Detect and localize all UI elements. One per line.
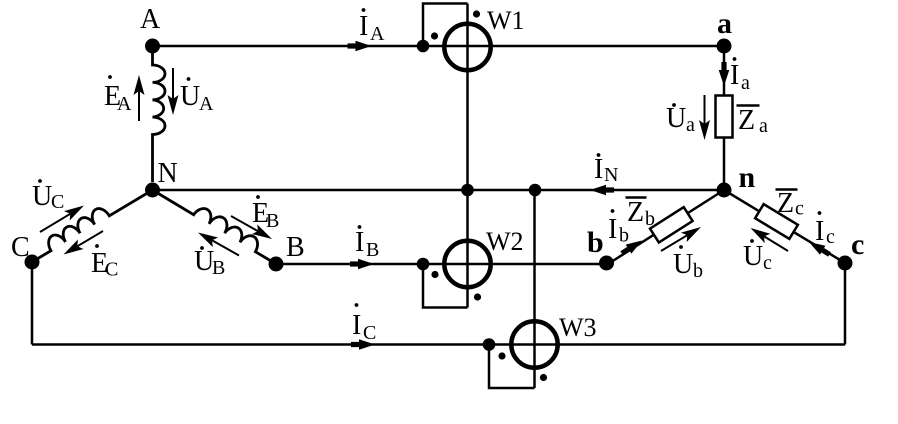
svg-text:U: U — [32, 181, 52, 212]
svg-text:Z: Z — [738, 105, 755, 136]
arrow Ub (to n) — [661, 227, 701, 251]
wattmeter W3 voltage wire — [533, 190, 536, 388]
svg-text:B: B — [286, 232, 305, 263]
label node a — [717, 7, 732, 40]
svg-text:B: B — [212, 257, 225, 279]
svg-text:U: U — [743, 241, 763, 272]
node C — [25, 255, 40, 270]
svg-text:I: I — [608, 214, 617, 245]
impedance Zb — [650, 207, 693, 242]
svg-text:U: U — [666, 103, 686, 134]
svg-text:n: n — [739, 161, 756, 194]
svg-text:I: I — [355, 227, 364, 258]
wattmeter W2 voltage wire — [466, 190, 469, 308]
svg-text:I: I — [359, 11, 368, 42]
svg-text:a: a — [717, 7, 732, 40]
label current IN — [594, 153, 618, 186]
current arrow IC — [351, 339, 375, 350]
arrow EB (to B) — [231, 216, 272, 239]
svg-text:N: N — [158, 158, 178, 189]
svg-text:c: c — [851, 228, 864, 261]
arrow Ua (down) — [699, 95, 710, 140]
wattmeter W1 voltage wire — [466, 4, 469, 191]
arrow UC (to N) — [40, 206, 84, 233]
svg-text:W2: W2 — [486, 227, 524, 256]
node b — [599, 256, 614, 271]
svg-text:A: A — [370, 23, 385, 45]
label node N — [158, 158, 178, 189]
svg-text:C: C — [11, 232, 30, 263]
label current IB — [355, 225, 379, 261]
svg-text:I: I — [730, 60, 739, 91]
label W3 — [559, 313, 597, 342]
wire bottom line C (via W3) — [32, 343, 845, 346]
label impedance Zc — [776, 188, 805, 220]
label voltage Ub — [673, 245, 703, 282]
label voltage Uc — [743, 239, 772, 274]
svg-text:c: c — [763, 252, 772, 274]
impedance Za — [716, 96, 733, 138]
impedance Zc — [755, 204, 798, 239]
junction W3 voltage on neutral — [529, 184, 542, 197]
svg-text:W3: W3 — [559, 313, 597, 342]
svg-text:A: A — [199, 93, 214, 115]
coil EA (phase A winding) — [153, 53, 166, 182]
arrow UA (down) — [168, 68, 179, 115]
current arrow IB — [350, 259, 374, 270]
label voltage Ua — [666, 103, 695, 136]
label current Ib — [608, 209, 629, 246]
coil EC (phase C winding) — [32, 190, 153, 262]
svg-text:A: A — [140, 4, 161, 35]
wattmeter W2 — [444, 241, 490, 287]
svg-text:U: U — [180, 81, 200, 112]
wattmeter W3 potential bracket — [489, 345, 535, 389]
current arrow Ic — [809, 242, 831, 257]
W1 polarity dot current — [431, 32, 438, 39]
svg-text:U: U — [673, 249, 693, 280]
label W2 — [486, 227, 524, 256]
label node b — [587, 226, 604, 259]
svg-text:c: c — [826, 226, 835, 248]
wire a to n (load phase a) — [723, 46, 726, 190]
node A — [145, 39, 160, 54]
label node B — [286, 232, 305, 263]
coil EB (phase B winding) — [153, 190, 277, 264]
svg-text:W1: W1 — [487, 6, 525, 35]
label node C — [11, 232, 30, 263]
wire line B (B to b) — [276, 263, 608, 266]
W2 polarity dot current — [431, 271, 438, 278]
wire neutral line (N to n) — [153, 189, 725, 192]
wire line A (A to a) — [153, 45, 725, 48]
label W1 — [487, 6, 525, 35]
current arrow IA — [348, 41, 372, 52]
svg-text:b: b — [645, 208, 655, 230]
label voltage UB — [194, 246, 225, 279]
svg-text:C: C — [51, 191, 64, 213]
arrow EC (to C) — [64, 231, 104, 255]
label node c — [851, 228, 864, 261]
wattmeter W1 potential bracket — [423, 4, 468, 47]
label current IC — [352, 303, 376, 344]
svg-text:a: a — [686, 114, 695, 136]
current arrow IN (leftward) — [590, 185, 614, 196]
svg-text:c: c — [795, 198, 804, 220]
label voltage UC — [32, 179, 64, 213]
junction W1 tap on line A — [417, 40, 430, 53]
wire C terminal down — [31, 262, 34, 345]
current arrow Ia (downward) — [719, 62, 730, 86]
label node A — [140, 4, 161, 35]
svg-text:Z: Z — [777, 188, 794, 219]
svg-text:I: I — [594, 154, 603, 185]
label impedance Zb — [626, 197, 656, 230]
svg-text:C: C — [105, 259, 118, 281]
svg-text:B: B — [266, 210, 279, 232]
label emf EA — [104, 75, 132, 115]
label current Ic — [815, 211, 835, 248]
wattmeter W2 potential bracket — [423, 264, 468, 308]
wire c to n (load phase c) — [724, 190, 845, 263]
svg-text:A: A — [117, 93, 132, 115]
label impedance Za — [737, 105, 769, 137]
label current Ia — [730, 57, 750, 94]
node n — [717, 183, 732, 198]
label node n — [739, 161, 756, 194]
arrow Uc (to n) — [751, 228, 789, 251]
svg-text:N: N — [604, 164, 618, 186]
W1 polarity dot voltage — [473, 10, 480, 17]
label voltage UA — [180, 77, 214, 115]
W2 polarity dot voltage — [474, 293, 481, 300]
wattmeter W3 — [511, 321, 557, 367]
arrow UB (to N) — [198, 233, 239, 256]
svg-text:C: C — [363, 322, 376, 344]
svg-text:I: I — [352, 310, 361, 341]
node N — [145, 183, 160, 198]
W3 polarity dot voltage — [540, 374, 547, 381]
svg-text:b: b — [587, 226, 604, 259]
junction W2 tap on line B — [417, 258, 430, 271]
junction W1 voltage on neutral — [461, 184, 474, 197]
node B — [269, 257, 284, 272]
wire c terminal down — [844, 263, 847, 345]
svg-text:a: a — [741, 72, 750, 94]
node a — [717, 39, 732, 54]
label emf EC — [91, 244, 118, 280]
svg-text:Z: Z — [627, 197, 644, 228]
wattmeter W1 — [444, 24, 490, 70]
label current IA — [359, 8, 385, 45]
label emf EB — [252, 195, 279, 232]
svg-text:I: I — [815, 216, 824, 247]
svg-text:b: b — [693, 260, 703, 282]
wire b to n (load phase b) — [608, 190, 724, 264]
junction W3 tap on bottom line — [483, 338, 496, 351]
svg-text:a: a — [759, 115, 768, 137]
W3 polarity dot current — [498, 352, 505, 359]
arrow EA (up) — [134, 75, 145, 121]
svg-text:B: B — [366, 239, 379, 261]
node c — [838, 256, 853, 271]
current arrow Ib — [620, 241, 642, 256]
